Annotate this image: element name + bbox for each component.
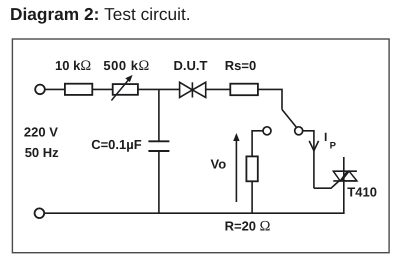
wire gate run to triac xyxy=(314,181,339,188)
wire capacitor top drop xyxy=(158,89,160,141)
terminal top-left xyxy=(35,85,45,95)
svg-text:D.U.T: D.U.T xyxy=(174,58,208,73)
resistor Rs xyxy=(230,84,258,96)
resistor R1 10k xyxy=(65,84,92,95)
svg-text:P: P xyxy=(330,140,337,151)
wire capacitor bottom drop xyxy=(158,151,160,213)
svg-text:T410: T410 xyxy=(347,185,377,200)
svg-text:C=0.1µF: C=0.1µF xyxy=(91,137,142,152)
switch contact circle right xyxy=(295,127,303,135)
current arrow Ip chevron xyxy=(309,141,318,151)
svg-text:Rs=0: Rs=0 xyxy=(225,58,256,73)
svg-text:I: I xyxy=(324,130,327,144)
potentiometer 500k xyxy=(111,75,137,101)
diac D.U.T xyxy=(180,82,206,97)
svg-text:Vo: Vo xyxy=(211,156,227,171)
switch S lever xyxy=(282,110,296,128)
wire bottom rail xyxy=(44,212,344,214)
capacitor C xyxy=(148,141,169,151)
svg-text:50 Hz: 50 Hz xyxy=(25,145,59,160)
wire left contact to Vo resistor xyxy=(252,131,263,157)
wire top rail segment 5 with corner down xyxy=(258,89,282,109)
svg-text:500 kΩ: 500 kΩ xyxy=(103,58,149,74)
wire top rail segment 4 xyxy=(206,88,231,90)
svg-text:Diagram 2: Test circuit.: Diagram 2: Test circuit. xyxy=(10,4,191,24)
terminal bottom-left xyxy=(35,208,45,218)
resistor R 20 ohm vertical xyxy=(246,156,257,181)
svg-text:R=20 Ω: R=20 Ω xyxy=(225,219,271,235)
wire top rail segment 1 xyxy=(45,88,65,90)
triac T410 xyxy=(333,157,357,213)
wire top rail segment 3 xyxy=(138,88,180,90)
switch contact circle left xyxy=(263,127,271,135)
wire top rail segment 2 xyxy=(92,88,112,90)
wire below resistor R xyxy=(251,181,253,213)
wire from right contact to Ip drop xyxy=(303,131,314,188)
arrow Vo xyxy=(233,133,239,202)
svg-text:10 kΩ: 10 kΩ xyxy=(55,58,91,74)
svg-text:220 V: 220 V xyxy=(24,125,58,140)
